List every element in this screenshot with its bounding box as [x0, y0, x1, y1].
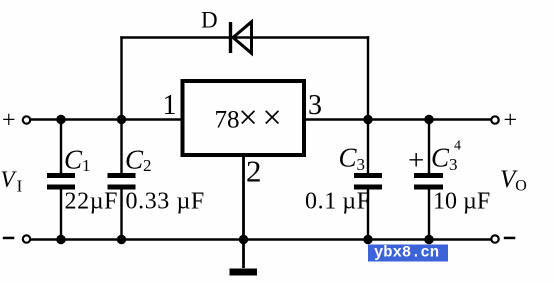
svg-text:1: 1: [163, 90, 177, 121]
svg-text:×: ×: [263, 100, 282, 137]
svg-text:0.33 µF: 0.33 µF: [126, 189, 205, 215]
svg-text:22µF: 22µF: [65, 189, 119, 215]
svg-text:0.1 µF: 0.1 µF: [305, 189, 371, 215]
svg-text:3: 3: [308, 90, 322, 121]
svg-text:10 µF: 10 µF: [433, 189, 490, 215]
svg-text:+: +: [2, 108, 16, 134]
svg-text:78: 78: [215, 107, 240, 134]
svg-text:2: 2: [246, 154, 262, 189]
svg-text:+: +: [408, 145, 424, 177]
svg-text:+: +: [504, 108, 518, 134]
svg-text:ybx8.cn: ybx8.cn: [374, 244, 439, 262]
svg-text:C34: C34: [431, 139, 461, 175]
svg-text:×: ×: [239, 100, 258, 137]
svg-text:D: D: [201, 8, 218, 33]
